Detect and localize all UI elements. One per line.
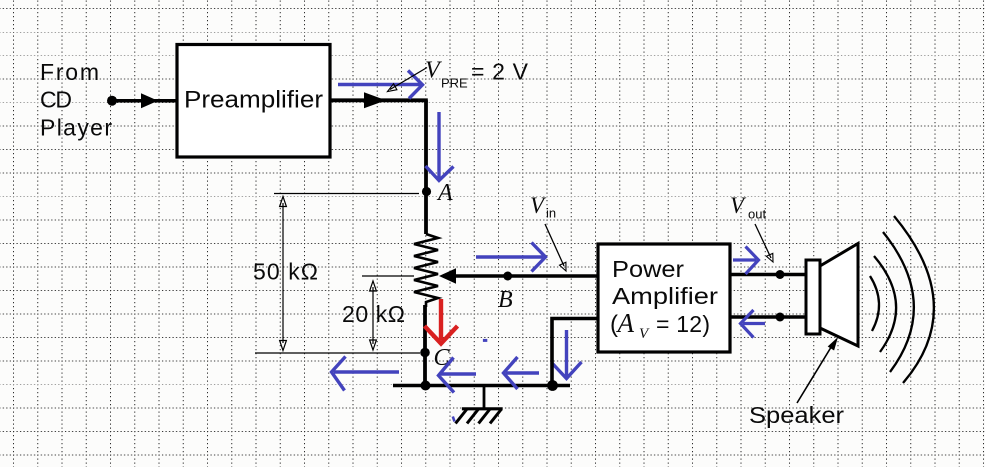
junction dot bus-amp — [547, 380, 558, 391]
wire power amp lower-left stub to bus — [552, 319, 599, 386]
node Vout top — [776, 270, 785, 279]
arrowhead on output wire — [364, 92, 386, 108]
leader arrowhead Vout — [766, 253, 773, 262]
svg-text:20 kΩ: 20 kΩ — [342, 301, 405, 327]
svg-text:V: V — [425, 58, 442, 84]
blue current arrow top right of preamp — [338, 71, 423, 99]
leader arrowhead Vin — [560, 262, 567, 271]
speaker driver rectangle — [806, 260, 820, 334]
svg-text:= 2 V: = 2 V — [471, 59, 529, 85]
blue current arrow toward power amp — [476, 243, 546, 272]
blue arrow left on bus far-left — [332, 357, 400, 391]
sound wave arc 1 — [870, 276, 879, 331]
wire input to preamplifier — [112, 99, 177, 103]
svg-text:A: A — [436, 180, 453, 206]
svg-text:Amplifier: Amplifier — [612, 283, 718, 309]
dimension line wiper level — [362, 275, 414, 277]
preamplifier U1 box — [177, 45, 330, 158]
blue arrow right at amp output — [733, 247, 759, 275]
svg-text:CD: CD — [40, 87, 72, 113]
svg-text:50 kΩ: 50 kΩ — [253, 259, 318, 285]
svg-text:out: out — [748, 207, 766, 222]
svg-text:Preamplifier: Preamplifier — [184, 87, 323, 114]
svg-text:From: From — [40, 59, 99, 85]
ground symbol — [456, 386, 503, 424]
node B — [503, 272, 512, 281]
wire amp output bottom to speaker — [730, 315, 807, 319]
label VPRE = 2 V — [425, 58, 529, 91]
blue arrow left on bus right of C — [439, 358, 477, 393]
wire preamp output horizontal — [330, 98, 428, 102]
node A — [422, 187, 431, 196]
wire resistor bottom to node C — [423, 305, 427, 353]
sound wave arc 2 — [874, 256, 896, 352]
stray blue tick near ground — [453, 417, 455, 422]
wiper wire from power amp to resistor — [443, 274, 599, 278]
blue current arrow down into node A — [426, 112, 454, 181]
svg-text:Power: Power — [612, 256, 684, 282]
dimension line bottom (at node C level) — [255, 352, 420, 354]
svg-text:in: in — [546, 206, 556, 221]
leader arrowhead VPRE — [388, 84, 397, 92]
blue arrow left at amp return — [741, 310, 766, 338]
label Vin — [530, 193, 556, 221]
speaker pointer arrow — [797, 344, 833, 403]
label Vout — [730, 193, 766, 222]
sound wave arc 3 — [883, 232, 914, 372]
svg-text:PRE: PRE — [441, 76, 468, 91]
wiper arrowhead into resistor — [439, 268, 456, 283]
svg-text:B: B — [498, 287, 513, 313]
power amplifier U2 box — [598, 244, 730, 352]
svg-text:= 12): = 12) — [656, 311, 710, 337]
leader line Vin — [545, 224, 564, 266]
junction dot bus-C — [421, 381, 431, 391]
wire vertical corner down to node A and resistor — [424, 100, 428, 234]
leader line Vout — [755, 224, 771, 258]
node bottom speaker wire — [776, 313, 785, 322]
svg-text:Speaker: Speaker — [749, 402, 844, 428]
sound wave arc 4 — [894, 216, 934, 383]
arrowhead on input wire — [141, 93, 158, 108]
dimension line top (at node A level) — [274, 193, 419, 195]
svg-text:C: C — [434, 345, 451, 371]
svg-text:A: A — [616, 308, 635, 338]
node C — [420, 348, 430, 358]
leader line VPRE — [390, 68, 427, 90]
dimension vertical 50k with arrows — [280, 197, 287, 351]
blue arrow left on bus mid — [504, 357, 540, 389]
potentiometer resistor 50k zigzag — [414, 234, 438, 307]
terminal dot input — [107, 96, 117, 106]
wire amp output top to speaker — [730, 273, 807, 277]
label (AV = 12) — [610, 308, 710, 342]
label: From CD Player — [40, 59, 112, 141]
stray blue mark near node B wire — [483, 339, 487, 342]
speaker cone — [820, 244, 858, 347]
dimension vertical 20k with arrows — [370, 281, 377, 350]
wire node C down to ground bus — [423, 353, 427, 386]
red arrow through lower resistor section — [425, 299, 458, 344]
ground bus horizontal — [393, 384, 570, 388]
blue arrow down near amp ground wire — [552, 330, 582, 379]
